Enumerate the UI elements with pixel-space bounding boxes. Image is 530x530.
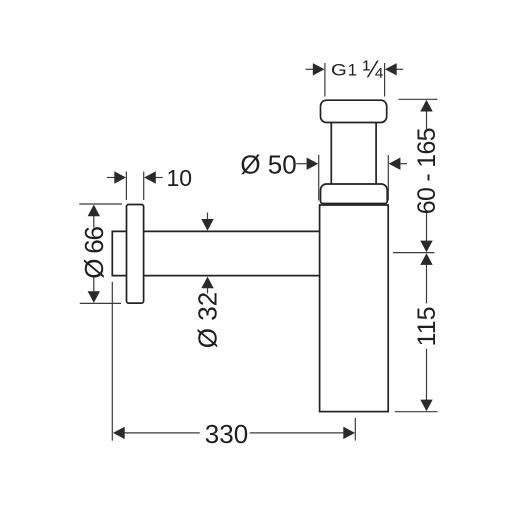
60-165 dimension line segments [426,111,428,130]
O50 right arrow [389,158,401,170]
115 dimension line segments [426,264,428,303]
horizontal pipe top line [144,230,320,232]
O32 up arrow [201,277,213,289]
330 left arrow [113,427,125,439]
horizontal pipe bottom line [144,275,320,277]
G1 1/4 left arrow [313,63,325,75]
O32 down arrow [201,219,213,231]
115 bottom extension line [395,411,438,413]
svg-text:Ø 50: Ø 50 [240,150,296,180]
O50 extension lines [318,155,320,201]
60-165 extension lines [399,98,438,100]
G1 1/4 arrow tails [306,68,315,70]
svg-text:115: 115 [413,306,441,346]
O50 leader + tails [296,163,307,165]
115 bottom arrow [420,400,432,412]
O66 bottom arrow [88,291,100,303]
G1 1/4 extension lines [324,63,326,97]
115 top arrow [420,253,432,265]
arrowheads [88,63,433,439]
G1 1/4 right arrow [385,63,397,75]
O32 arrow tails [207,213,209,220]
10 right arrow [144,171,156,183]
svg-text:Ø 32: Ø 32 [192,292,222,348]
svg-text:10: 10 [167,165,193,191]
O66 top arrow [88,205,100,217]
dimension linework [79,63,437,441]
svg-text:330: 330 [205,419,248,449]
riser pipe left line [330,123,332,185]
riser pipe right line [375,123,377,185]
svg-text:Ø 66: Ø 66 [79,226,109,278]
O66 dimension line segments [93,216,95,228]
object outlines [112,100,388,411]
wall escutcheon [127,205,144,304]
330 extension lines [111,282,113,441]
wall pipe stub [112,231,126,275]
top flange nut [321,100,387,122]
svg-text:60 - 165: 60 - 165 [413,128,441,214]
trap body [320,205,389,412]
10 extension lines [125,172,127,201]
10 left arrow [114,171,126,183]
330 dimension line segments [125,432,200,434]
lower slip nut [321,184,388,204]
330 right arrow [343,427,355,439]
10 arrow tails [107,177,116,179]
O66 extension lines [79,203,122,205]
O50 left arrow [307,158,319,170]
60-165 top arrow [420,100,432,112]
60-165 bottom arrow [420,241,432,253]
